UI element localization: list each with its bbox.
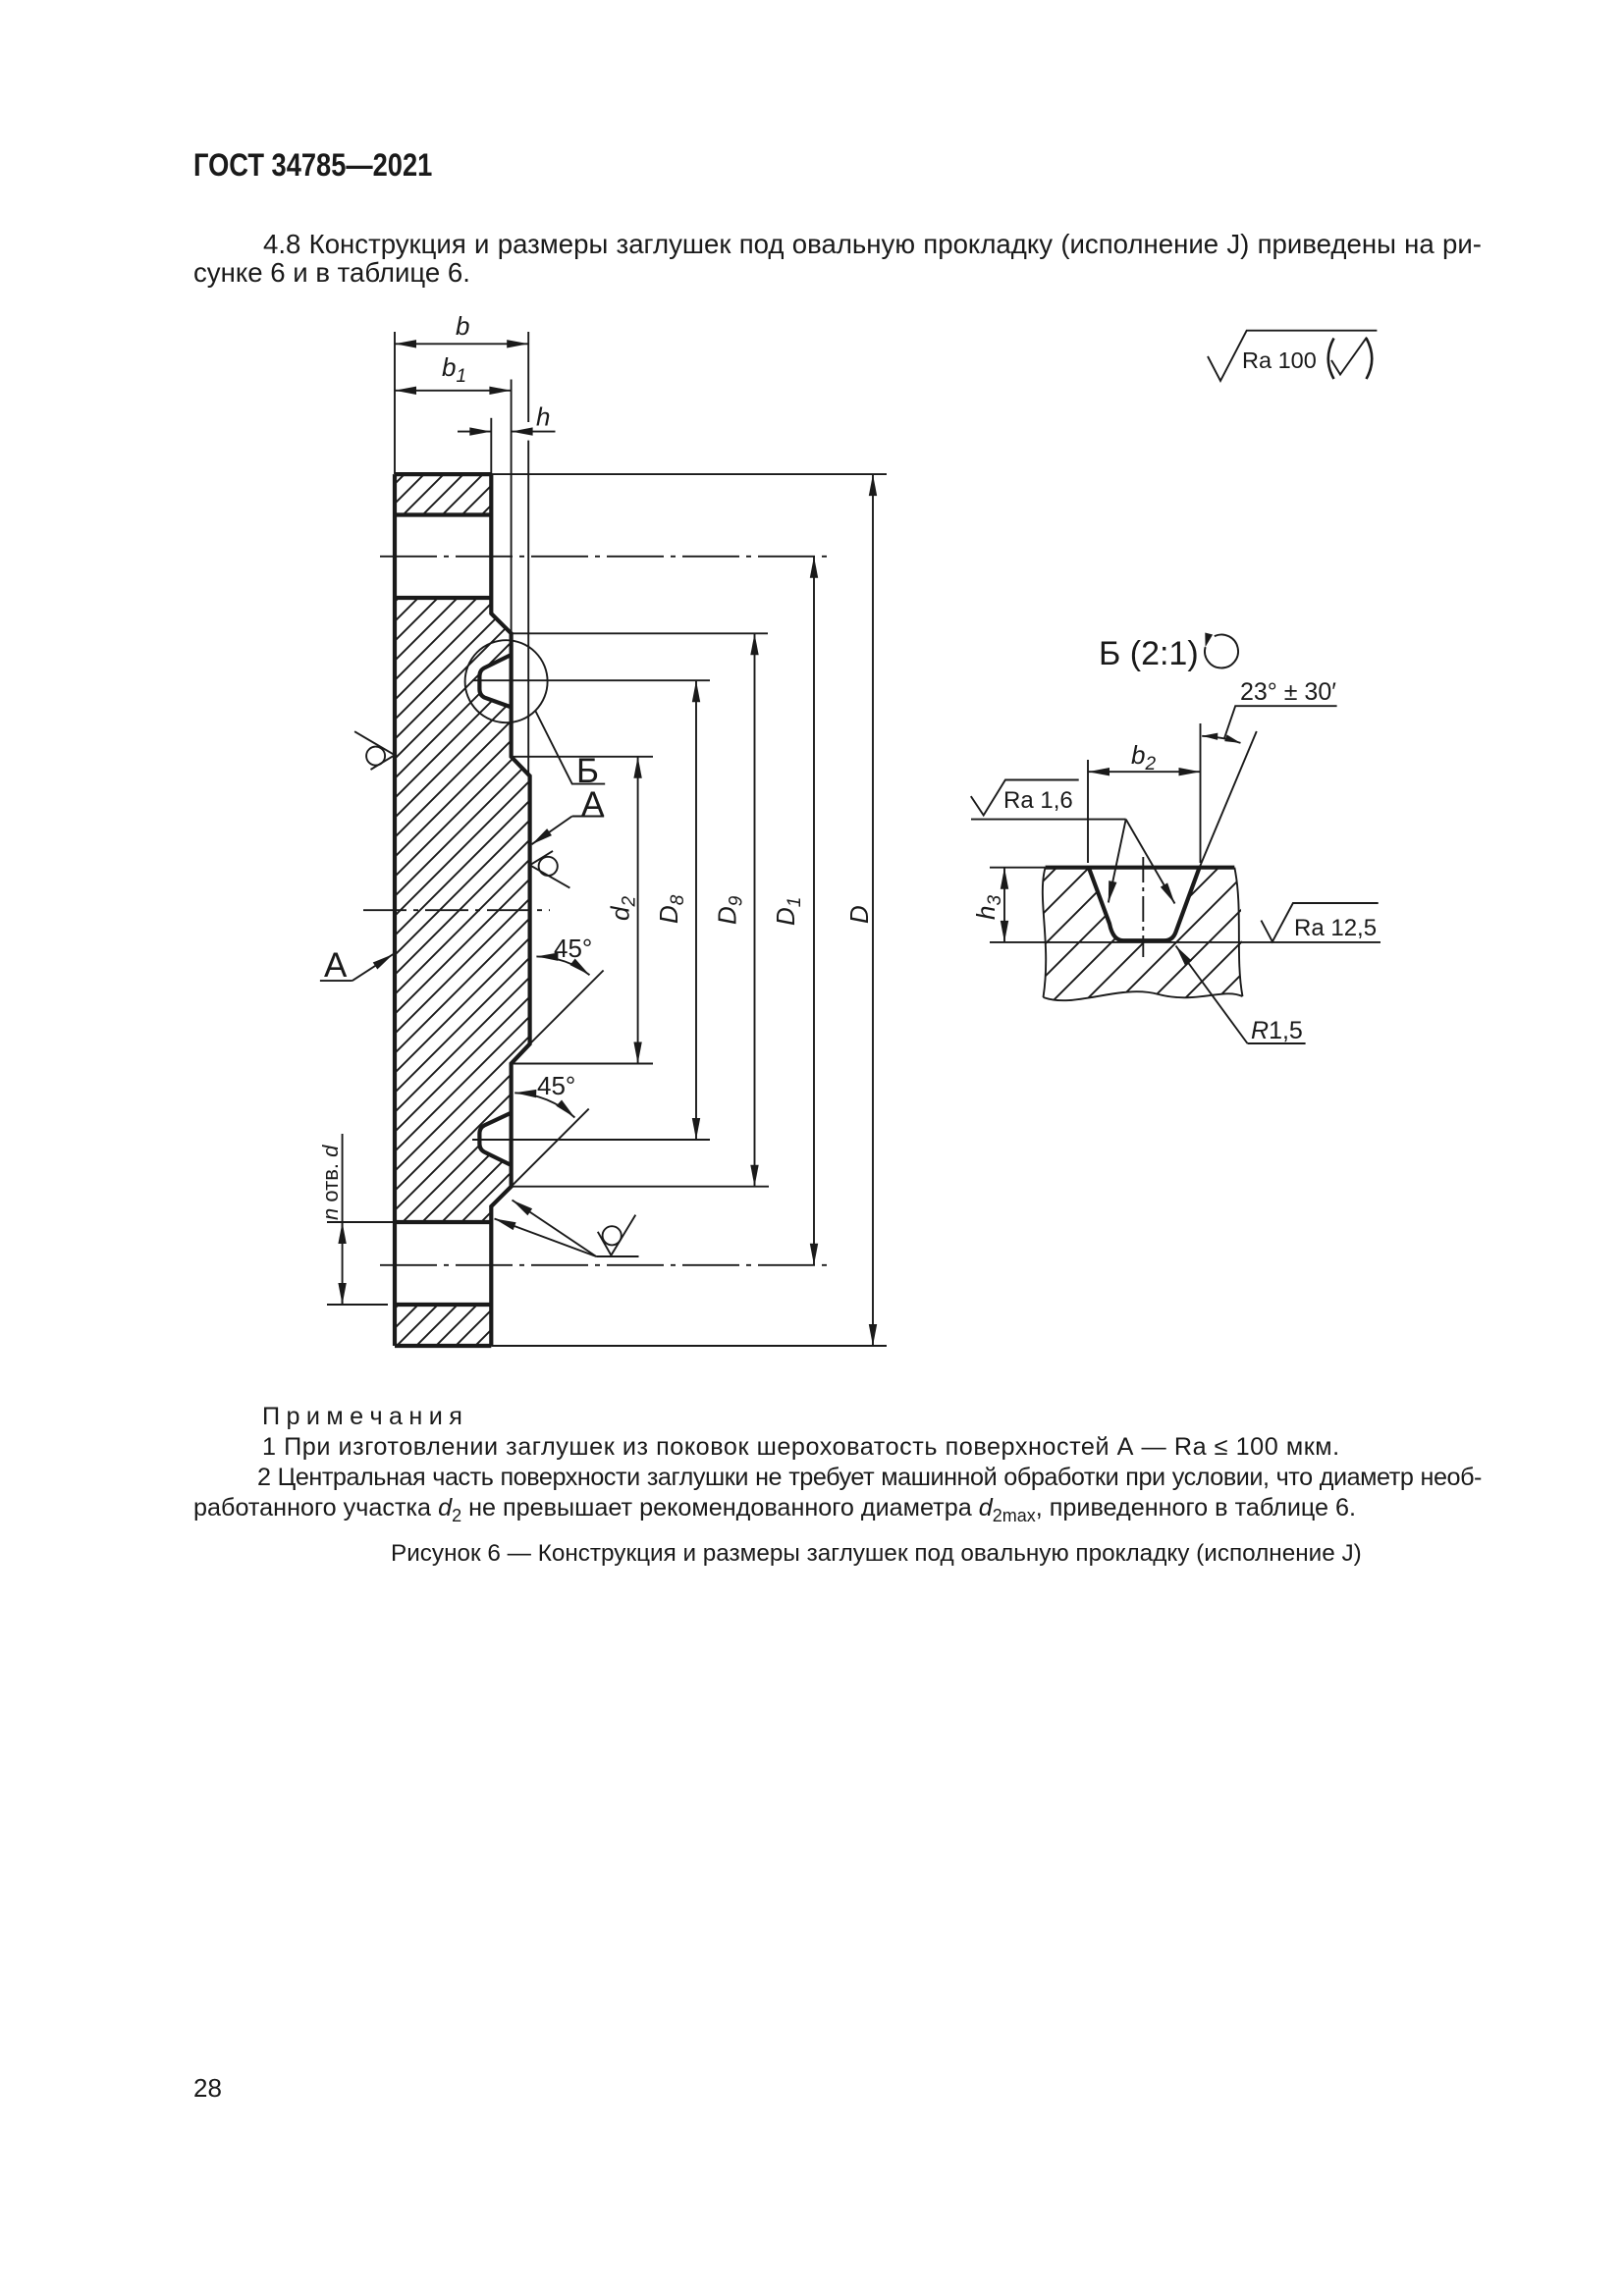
Ra 1,6 leader with two arrows to groove walls	[971, 819, 1126, 821]
svg-text:h3: h3	[971, 895, 1005, 920]
bolt hole top: upper edge	[395, 512, 491, 516]
45deg dimension at rim chamfer	[512, 1109, 589, 1187]
right side extension lines	[491, 473, 887, 475]
dimension D9	[754, 633, 756, 1186]
leader to label B	[535, 711, 605, 784]
svg-text:R1,5: R1,5	[1251, 1017, 1303, 1044]
Ra 100 general roughness symbol	[1208, 331, 1377, 381]
dimension D1	[813, 557, 815, 1265]
flange section hatch: upper rim band	[395, 474, 491, 514]
23deg groove wall angle line	[1200, 731, 1257, 868]
bolt hole bottom: upper edge	[395, 1220, 491, 1224]
bolt hole top: lower edge	[395, 596, 491, 600]
detail B sealing surface	[1046, 866, 1235, 870]
svg-text:Б (2:1): Б (2:1)	[1099, 635, 1199, 672]
detail B groove profile	[1089, 868, 1200, 941]
svg-text:Ra 12,5: Ra 12,5	[1294, 915, 1377, 941]
roughness mark on back face (no machining circle)	[354, 731, 395, 770]
page number	[193, 2073, 222, 2104]
svg-text:А: А	[581, 785, 605, 824]
small check in parentheses	[1331, 338, 1367, 375]
svg-text:b: b	[456, 311, 469, 341]
Ra 12,5 roughness symbol	[1261, 903, 1378, 941]
leader of surface label A (left)	[320, 980, 352, 982]
bolt hole bottom: lower edge	[395, 1303, 491, 1307]
lower gasket groove profile	[479, 1113, 511, 1165]
svg-text:b1: b1	[442, 352, 466, 387]
dimension D	[872, 474, 874, 1346]
extension lines above flange for b, b1, h	[394, 332, 396, 474]
svg-text:D1: D1	[771, 897, 805, 926]
45deg dimension at raised face step	[530, 971, 604, 1044]
svg-text:Ra 100: Ra 100	[1242, 347, 1317, 373]
svg-text:45°: 45°	[537, 1071, 575, 1100]
23deg label leader	[1224, 706, 1337, 738]
notes block	[193, 1402, 1482, 1523]
roughness mark on raised face	[530, 851, 570, 888]
detail B break lines (wavy)	[1043, 868, 1046, 997]
dimension b	[395, 343, 528, 345]
figure caption	[391, 1540, 1362, 1568]
svg-text:D8: D8	[654, 894, 688, 924]
svg-text:D9: D9	[713, 895, 747, 925]
paragraph 4.8	[193, 231, 1482, 287]
rotation symbol of detail label	[1205, 634, 1238, 667]
svg-text:D: D	[844, 905, 874, 924]
dimension h (outside arrows)	[458, 431, 491, 433]
flange outline: bottom edge	[395, 1344, 491, 1348]
leader of surface label A (right)	[572, 816, 605, 818]
flange outline: front profile with chamfers and raised face	[491, 474, 529, 1346]
svg-text:Б: Б	[576, 752, 599, 790]
svg-text:h: h	[536, 402, 550, 432]
groove bottom extension line	[990, 941, 1380, 943]
parentheses strokes	[1328, 339, 1334, 380]
svg-text:23° ± 30′: 23° ± 30′	[1240, 678, 1336, 706]
flange section hatch: main body	[388, 589, 545, 1237]
flange outline: top edge	[395, 472, 491, 476]
svg-text:А: А	[324, 946, 348, 985]
detail B material hatch	[1031, 859, 1257, 1011]
dimension D8	[695, 680, 697, 1140]
svg-text:n отв. d: n отв. d	[318, 1145, 343, 1220]
dimension h3	[1003, 868, 1005, 942]
svg-text:b2: b2	[1131, 740, 1156, 774]
detail indicator circle B	[465, 640, 548, 722]
roughness mark for chamfer surfaces with two leaders	[596, 1255, 638, 1257]
flange section hatch: lower rim band	[395, 1305, 491, 1346]
flange outline: back face	[393, 474, 397, 1346]
svg-text:d2: d2	[606, 896, 640, 921]
top bolt hole axis	[380, 556, 830, 558]
b2 extension lines	[1087, 760, 1089, 863]
centre axis line	[363, 909, 550, 911]
upper gasket groove profile	[479, 655, 511, 707]
svg-text:45°: 45°	[554, 934, 592, 963]
dimension b2	[1088, 771, 1201, 773]
dimension b1	[395, 390, 511, 392]
groove centre line	[1142, 857, 1144, 957]
Ra 1,6 roughness symbol	[971, 780, 1079, 816]
dimension d2	[637, 757, 639, 1064]
page header	[193, 149, 432, 181]
R1,5 leader	[1176, 946, 1248, 1044]
n holes d dimension	[327, 1221, 395, 1223]
bottom bolt hole axis	[380, 1264, 830, 1266]
surface extension line left	[990, 867, 1046, 869]
svg-text:Ra 1,6: Ra 1,6	[1003, 787, 1073, 814]
